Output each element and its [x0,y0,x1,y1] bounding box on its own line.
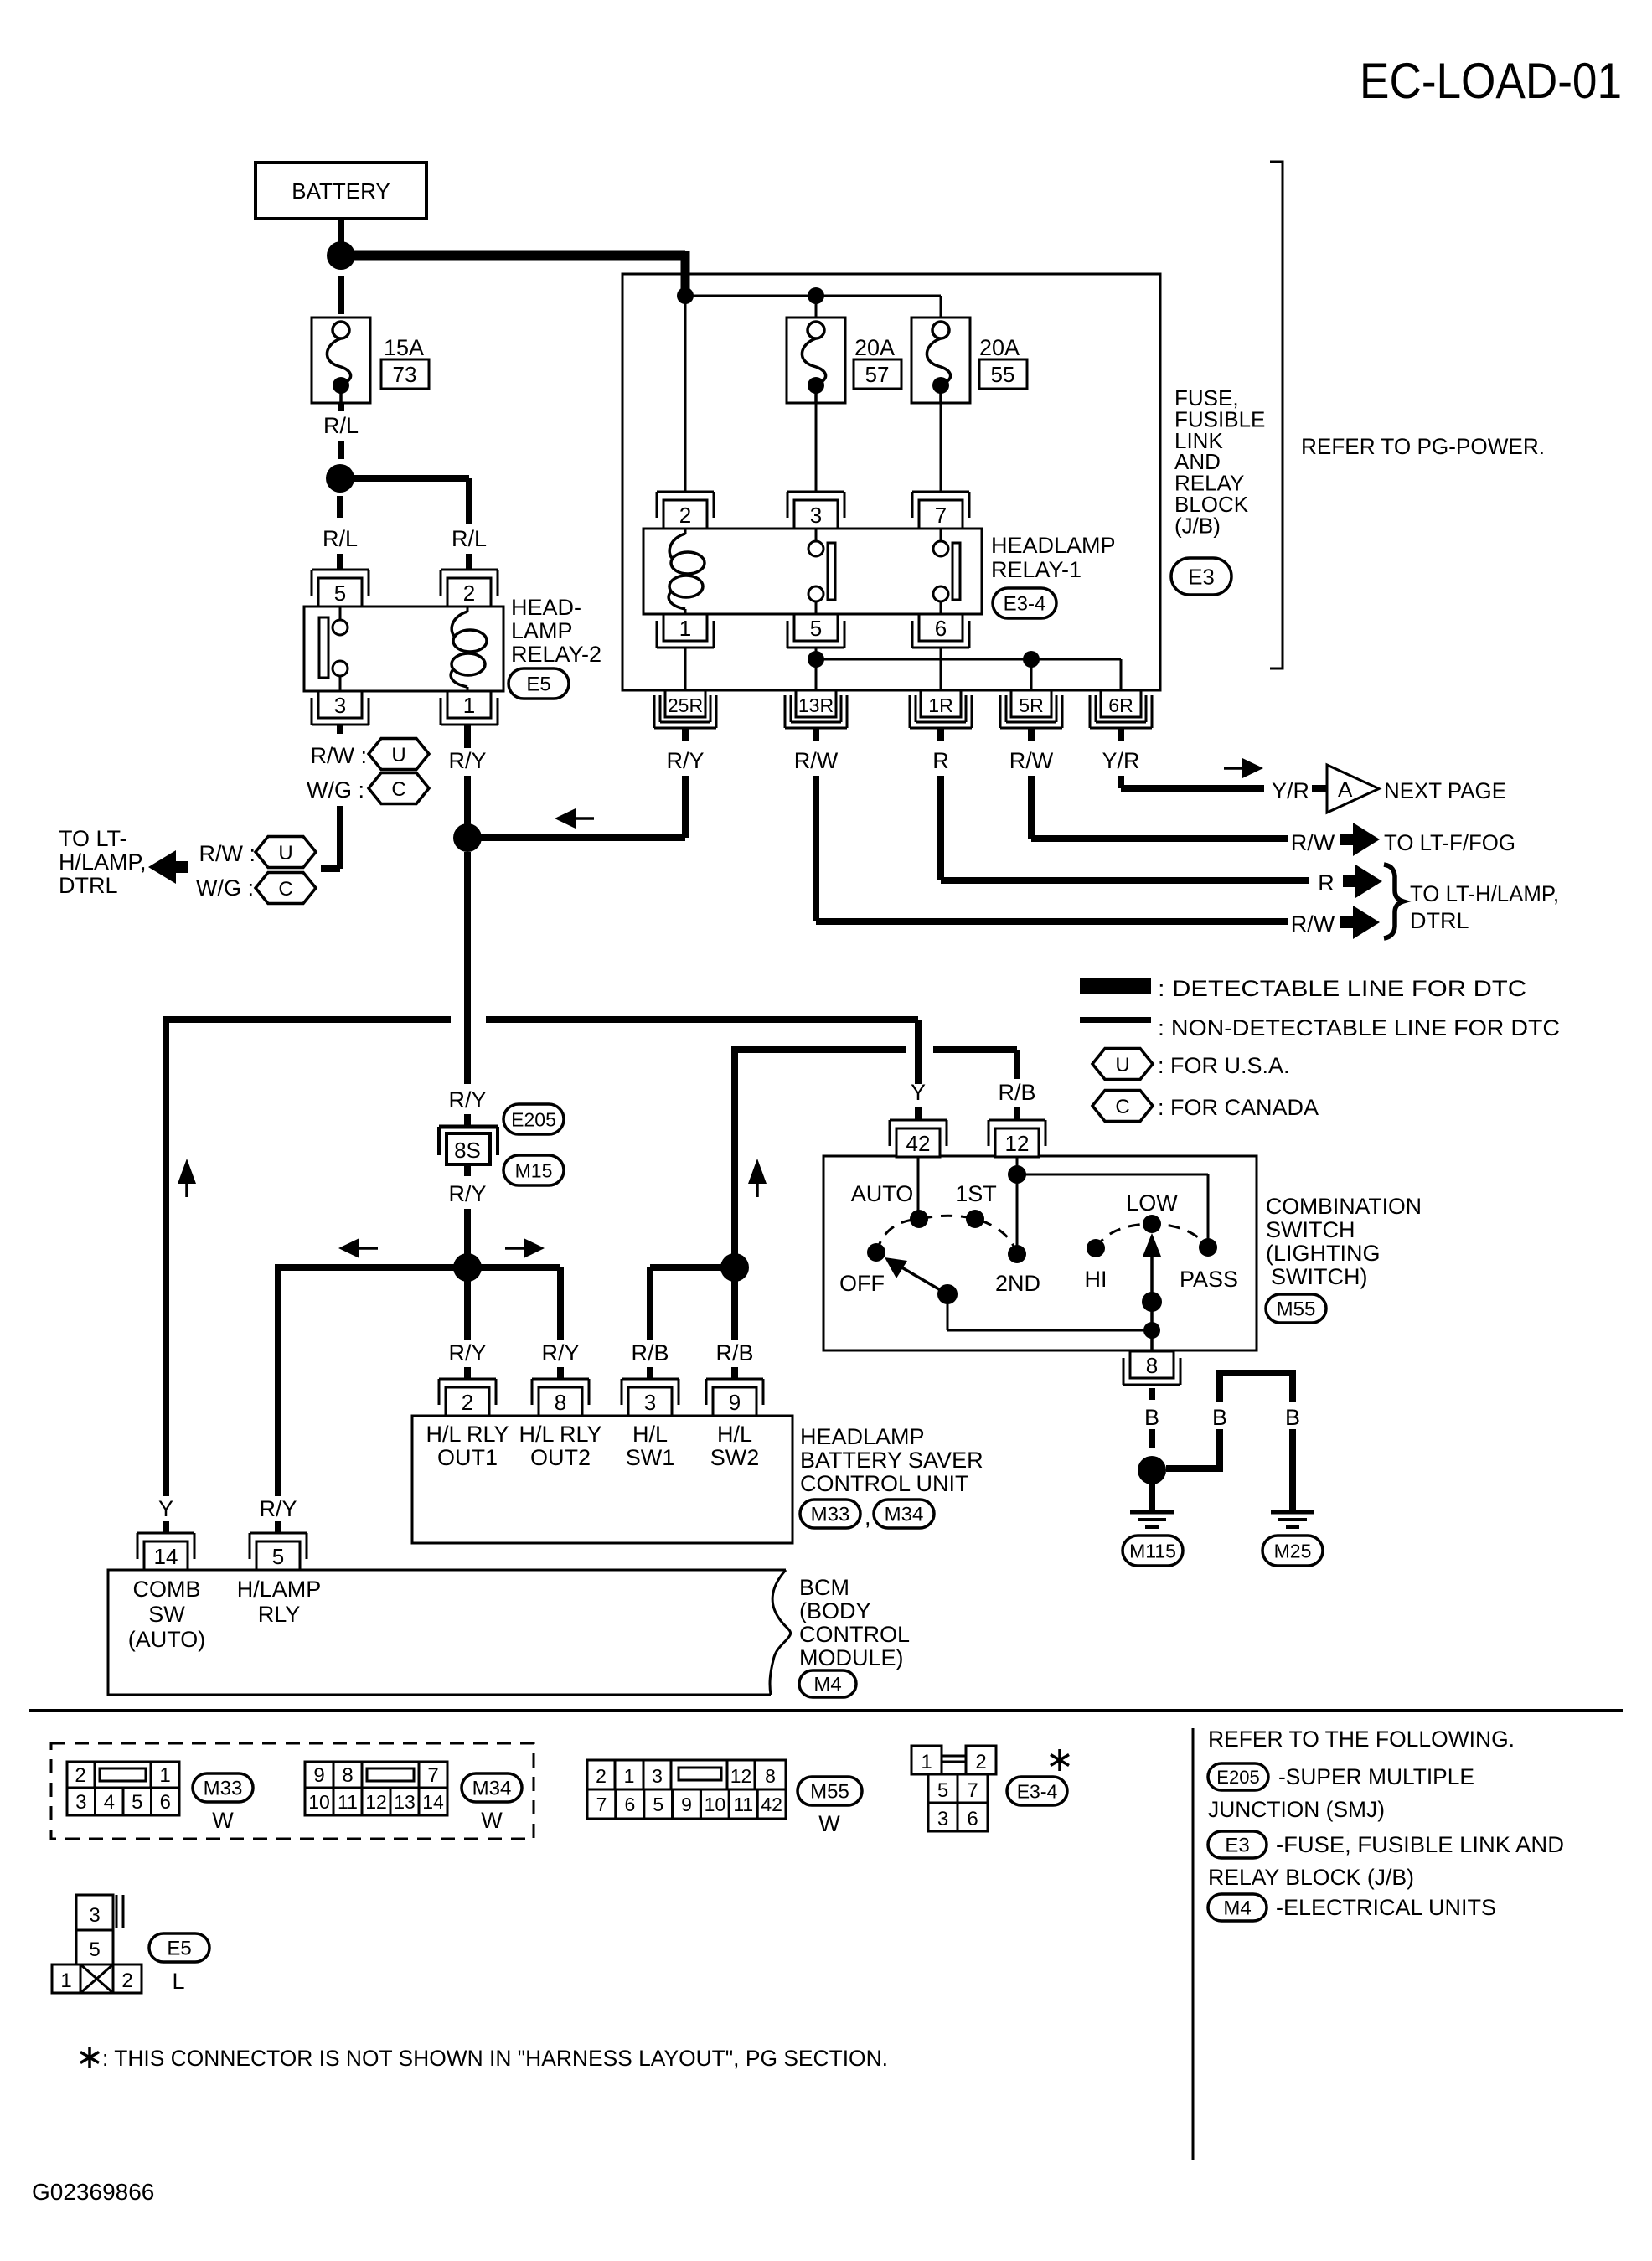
wire stub pin 776 [647,1367,653,1379]
svg-text:R/Y: R/Y [448,1087,486,1112]
svg-text:9: 9 [313,1764,324,1787]
svg-text:M55: M55 [810,1781,849,1804]
node battery junction [327,241,355,270]
ref E205 SMJ [1208,1763,1268,1790]
svg-text:8: 8 [555,1390,566,1415]
svg-text:R/Y: R/Y [666,748,704,773]
svg-text:2: 2 [596,1765,607,1787]
svg-text:M33: M33 [204,1778,243,1800]
svg-text:3: 3 [810,503,822,528]
wire pin42 to AUTO [917,1157,920,1219]
node R/B distribution junction [720,1253,749,1282]
wire to ground M115 [1149,1481,1155,1510]
wire Y/R to next page [1118,776,1124,788]
arrow annotation up left [178,1159,196,1184]
svg-text:55: 55 [991,362,1015,387]
svg-text:R: R [1318,870,1335,896]
svg-text:REFER TO THE FOLLOWING.: REFER TO THE FOLLOWING. [1208,1727,1515,1752]
svg-text:R/Y: R/Y [541,1340,579,1365]
svg-text:: FOR CANADA: : FOR CANADA [1158,1095,1319,1120]
battery saver pin 2 [439,1378,496,1381]
svg-text:3: 3 [644,1390,656,1415]
wire stub below pin 3 [337,725,343,734]
svg-text:OUT2: OUT2 [530,1445,591,1470]
contact LOW [1143,1215,1161,1233]
wire stub pin 669 [557,1367,564,1379]
wire bus R/B [735,1046,906,1053]
svg-text:AUTO: AUTO [851,1181,914,1206]
wire pin1 to 25R [684,648,687,690]
wire R/Y to junction [464,776,471,838]
svg-text:CONTROL: CONTROL [799,1622,910,1647]
connector face E3-4 [911,1746,942,1774]
wire internal bus [685,295,941,297]
next page connector A [1312,785,1327,792]
node R/Y distribution junction [453,1253,482,1282]
wiper arm left with arrowhead [895,1263,947,1294]
arrow annotation right [524,1238,545,1258]
wire pin12 to 2ND [1016,1157,1019,1254]
wire branch to 5R 6R [816,658,1121,661]
connector ref E205 [503,1104,564,1134]
svg-text:10: 10 [308,1791,330,1813]
contact AUTO [910,1210,928,1228]
BCM pin 14 [137,1532,194,1535]
relay-2 pin 3 [318,691,362,718]
wire junction to OUT2 pin 8 [467,1264,560,1271]
svg-text:5: 5 [937,1779,948,1802]
svg-text:2: 2 [463,581,475,606]
contact mid dot [1142,1292,1162,1312]
wiper pivot dot [937,1284,958,1304]
relay-2 contact bar [319,617,328,678]
contact 2ND [1008,1245,1026,1263]
svg-text:Y/R: Y/R [1102,748,1139,773]
svg-text:R/B: R/B [715,1340,753,1365]
svg-text:HEADLAMP: HEADLAMP [800,1424,925,1449]
svg-text:E3: E3 [1188,564,1215,589]
arrow annotation right [1242,758,1263,778]
svg-text:M34: M34 [885,1504,924,1526]
wire junction to SW1 pin 3 [650,1264,735,1271]
svg-text:BCM: BCM [799,1575,849,1600]
svg-text:C: C [1115,1096,1129,1118]
svg-text:DTRL: DTRL [59,873,118,898]
connector face M55 [587,1760,615,1789]
fuse 20A 55 [911,317,970,403]
svg-text:3: 3 [334,693,346,718]
svg-text:12: 12 [1005,1131,1030,1156]
svg-text:: THIS CONNECTOR IS NOT SHOWN: : THIS CONNECTOR IS NOT SHOWN IN "HARNES… [102,2046,888,2071]
svg-text:6: 6 [935,616,947,641]
svg-text:REFER TO PG-POWER.: REFER TO PG-POWER. [1301,434,1545,459]
svg-text:-SUPER MULTIPLE: -SUPER MULTIPLE [1278,1764,1474,1789]
svg-text:8: 8 [342,1764,353,1787]
svg-text:: DETECTABLE LINE FOR DTC: : DETECTABLE LINE FOR DTC [1158,976,1526,1001]
wire R/W to LT-H/LAMP [813,776,819,921]
J/B exit pin 6R [1101,690,1141,717]
node J/B bus junction A [677,287,694,304]
wire 25R to junction [682,776,689,838]
svg-text:(BODY: (BODY [799,1598,871,1623]
svg-text:9: 9 [681,1794,692,1815]
svg-text:E5: E5 [526,674,550,696]
svg-text:1R: 1R [928,694,952,716]
svg-text:11: 11 [733,1794,753,1815]
wire R/W to LT-F/FOG [1028,776,1035,839]
wire stub below 1338 [1118,728,1124,741]
svg-text:8: 8 [765,1765,776,1787]
svg-text:5: 5 [272,1544,284,1569]
svg-text:-FUSE, FUSIBLE LINK AND: -FUSE, FUSIBLE LINK AND [1276,1832,1564,1857]
svg-text:5: 5 [89,1938,100,1961]
svg-text:RLY: RLY [258,1602,301,1627]
svg-text:6: 6 [624,1794,635,1815]
svg-text:Y: Y [158,1496,173,1521]
connector ref E3-4 bottom [1007,1777,1067,1805]
wire pin3 down-left [337,806,343,869]
svg-text:JUNCTION (SMJ): JUNCTION (SMJ) [1208,1797,1385,1822]
svg-text:BATTERY SAVER: BATTERY SAVER [800,1448,983,1473]
svg-text:COMB: COMB [133,1577,201,1602]
svg-text:Y: Y [911,1080,926,1105]
svg-text:H/L RLY: H/L RLY [519,1422,601,1447]
fuse block J/B box [622,274,1160,690]
svg-text:14: 14 [422,1791,444,1813]
svg-text:3: 3 [937,1808,948,1830]
connector ref E5 bottom [149,1933,209,1962]
svg-text:B: B [1144,1405,1159,1430]
svg-text:H/L RLY: H/L RLY [426,1422,509,1447]
BCM pin 5 [250,1532,307,1535]
svg-text:DTRL: DTRL [1410,908,1469,933]
right wiper arm with arrowhead up [1150,1248,1154,1350]
relay-2 contact circles [339,607,342,621]
svg-text:10: 10 [705,1794,726,1815]
svg-text:20A: 20A [979,335,1020,360]
svg-text:LAMP: LAMP [511,618,573,643]
battery saver pin 8 [532,1378,589,1381]
svg-text:2: 2 [121,1969,132,1992]
svg-text:R: R [932,748,949,773]
contact OFF [867,1243,885,1262]
connector ref M55 [798,1777,862,1805]
fuse 15A [312,317,370,403]
svg-text:H/LAMP: H/LAMP [237,1577,322,1602]
comb switch pin 42 [915,1079,922,1084]
svg-text:2ND: 2ND [995,1271,1040,1296]
wire stub below 8S [464,1164,471,1176]
svg-text:1: 1 [60,1969,71,1992]
svg-text:R/L: R/L [323,526,358,551]
svg-text:42: 42 [761,1794,782,1815]
relay-1 pin 2 [657,491,714,493]
svg-text:11: 11 [338,1791,358,1813]
svg-text:SW1: SW1 [626,1445,675,1470]
wire stub pin 14 [163,1521,169,1533]
svg-text:B: B [1212,1405,1227,1430]
node R/L junction [326,464,354,493]
svg-text:(J/B): (J/B) [1174,513,1221,538]
svg-text:12: 12 [730,1765,752,1787]
node branch junction 5R [1023,651,1040,668]
wire to junction [464,1209,471,1267]
wire stub pin2 [466,554,472,570]
wire R/Y through bus [464,852,471,1084]
ref M4 electrical units [1208,1894,1267,1921]
svg-text:M33: M33 [811,1504,850,1526]
relay U1 headlamp relay-2 body [304,607,503,691]
svg-text:SWITCH: SWITCH [1266,1217,1355,1242]
battery box [256,163,426,219]
wire stub pin 877 [731,1367,738,1379]
ground M25 [1271,1510,1314,1515]
svg-text:57: 57 [865,362,890,387]
ref E3 fuse block [1208,1831,1267,1858]
svg-text:8S: 8S [454,1138,481,1163]
connector face M34 [305,1762,333,1788]
relay-1 contact B [940,529,942,541]
svg-text:MODULE): MODULE) [799,1645,904,1670]
svg-text:R/B: R/B [631,1340,669,1365]
wire battery bus to J/B [341,251,685,261]
wire dash battery to fuse [338,276,344,314]
fuse number box 73 [381,359,429,389]
svg-text:20A: 20A [854,335,895,360]
svg-text:9: 9 [729,1390,741,1415]
svg-text:13: 13 [394,1791,416,1813]
svg-text:E5: E5 [167,1938,191,1960]
connector ref M34 [462,1773,522,1802]
relay-2 pin 1 [447,691,491,718]
relay-1 pin 7 [912,491,969,493]
dashed box around M33 M34 [51,1743,534,1839]
svg-text:73: 73 [393,362,417,387]
wire stub below 1123 [937,728,944,741]
battery saver pin 3 [622,1378,679,1381]
dashed arc right rotary [1096,1224,1208,1248]
svg-text:L: L [172,1969,184,1994]
svg-text:E205: E205 [1216,1767,1259,1788]
SMJ connector 8S [439,1125,498,1129]
svg-text:E3: E3 [1225,1835,1249,1857]
svg-text:: NON-DETECTABLE LINE FOR DTC: : NON-DETECTABLE LINE FOR DTC [1158,1015,1560,1040]
wire stub to 8S [464,1114,471,1128]
wire stub below 818 [682,728,689,741]
svg-text:E205: E205 [511,1108,556,1130]
dashed arc left rotary [876,1216,1017,1254]
svg-text:R/W: R/W [794,748,839,773]
headlamp battery saver control unit box [412,1416,792,1543]
svg-text:W: W [481,1808,503,1833]
wire to PASS [1017,1174,1208,1176]
svg-text:12: 12 [365,1791,387,1813]
svg-text:R/B: R/B [998,1080,1035,1105]
relay-1 pin 1 [663,614,707,641]
svg-text:PASS: PASS [1180,1267,1238,1292]
svg-text:R/W: R/W [1291,830,1335,855]
bracket refer to PG-POWER [1270,162,1283,668]
svg-text:COMBINATION: COMBINATION [1266,1194,1422,1219]
relay-1 pin 6 [919,614,963,641]
svg-text:R/Y: R/Y [448,1340,486,1365]
battery saver pin 9 [706,1378,763,1381]
node common junction [1143,1322,1160,1339]
svg-text:R/W: R/W [1009,748,1054,773]
svg-text:1: 1 [679,616,691,641]
legend detectable line [1080,978,1151,994]
J/B exit pin 25R [665,690,705,717]
svg-text:C: C [278,878,292,901]
svg-text:SW: SW [148,1602,185,1627]
wire stub pin 558 [464,1367,471,1379]
svg-text:C: C [391,778,405,801]
svg-text:NEXT PAGE: NEXT PAGE [1384,778,1506,803]
svg-text:5: 5 [810,616,822,641]
wire R to LT-H/LAMP [937,776,944,880]
svg-text:W: W [212,1808,234,1833]
connector ref M55 [1266,1294,1326,1323]
relay-1 pin 3 [787,491,844,493]
connector face M33 [67,1762,95,1788]
arrow annotation left [555,808,576,829]
relay-1 coil [684,529,687,534]
svg-text:42: 42 [906,1131,931,1156]
wire junction to BCM pin 5 [278,1264,467,1271]
svg-text:TO LT-F/FOG: TO LT-F/FOG [1384,830,1515,855]
svg-text:R/Y: R/Y [448,1181,486,1206]
svg-text:(LIGHTING: (LIGHTING [1266,1241,1381,1266]
wire stub pin5 [337,554,343,570]
svg-text:RELAY-2: RELAY-2 [511,642,601,667]
contact HI [1087,1239,1105,1257]
svg-text:7: 7 [935,503,947,528]
svg-text:7: 7 [967,1779,978,1802]
svg-text:M55: M55 [1277,1298,1316,1321]
svg-text:15A: 15A [384,335,424,360]
wire stub pin 5 [275,1521,281,1533]
svg-text:H/L: H/L [717,1422,752,1447]
svg-text:RELAY BLOCK (J/B): RELAY BLOCK (J/B) [1208,1865,1414,1890]
comb switch pin 8 [1130,1351,1174,1378]
svg-text:R/W :: R/W : [311,743,368,768]
relay-2 pin 5 [312,569,369,571]
svg-text:1: 1 [463,693,475,718]
svg-text:BATTERY: BATTERY [292,178,390,204]
legend C for Canada [1092,1091,1153,1122]
svg-text:3: 3 [652,1765,663,1787]
svg-text:B: B [1285,1405,1300,1430]
svg-text:LOW: LOW [1126,1190,1178,1216]
svg-text:13R: 13R [798,694,834,716]
svg-text:: FOR U.S.A.: : FOR U.S.A. [1158,1053,1290,1078]
svg-text:A: A [1338,777,1353,802]
wire dash to relay-2 pin 5 [337,496,343,518]
svg-text:14: 14 [154,1544,178,1569]
svg-text:8: 8 [1146,1353,1158,1378]
svg-text:W/G :: W/G : [196,875,254,901]
connector refs M33 M34 [800,1500,860,1528]
wire junction to OUT1 pin 2 [464,1267,471,1340]
svg-text:7: 7 [596,1794,607,1815]
arrow annotation up right [748,1159,767,1184]
svg-text:M4: M4 [813,1674,841,1696]
svg-text:6R: 6R [1108,694,1133,716]
svg-text:OUT1: OUT1 [437,1445,498,1470]
svg-text:5: 5 [334,581,346,606]
svg-text:RELAY-1: RELAY-1 [991,557,1082,582]
svg-text:4: 4 [104,1791,115,1814]
node R/Y junction [453,823,482,852]
legend U for USA [1092,1049,1153,1080]
connector ref E3 [1171,558,1231,595]
footnote asterisk [80,2047,99,2068]
wiper to common [947,1294,949,1330]
svg-text:R/Y: R/Y [448,748,486,773]
relay-1 contact A [815,529,818,541]
wire dash [338,441,344,459]
ground bridge wires B-B [1220,1370,1293,1376]
svg-text:M25: M25 [1274,1540,1312,1562]
svg-text:EC-LOAD-01: EC-LOAD-01 [1360,53,1622,109]
svg-text:1: 1 [159,1764,170,1787]
relay U2 headlamp relay-1 body [643,529,982,614]
svg-text:5R: 5R [1019,694,1043,716]
wire stub relay-2 pin1 [464,725,471,748]
separator line [29,1709,1623,1712]
svg-text:OFF: OFF [839,1271,885,1296]
svg-text:M115: M115 [1129,1540,1176,1562]
svg-text:R/Y: R/Y [259,1496,297,1521]
divider line [1192,1728,1195,2160]
wire fuse1 to pin 3 [815,403,818,493]
connector ref E5 [509,668,569,699]
svg-text:1: 1 [921,1751,932,1773]
svg-text:U: U [278,842,292,865]
svg-text:2: 2 [462,1390,473,1415]
svg-text:25R: 25R [668,694,703,716]
svg-text:2: 2 [975,1751,986,1773]
svg-text:Y/R: Y/R [1272,778,1309,803]
svg-text:H/LAMP,: H/LAMP, [59,849,147,875]
svg-text:3: 3 [89,1904,100,1927]
connector ref M4 [799,1670,856,1697]
svg-text:R/L: R/L [323,413,359,438]
svg-text:TO LT-: TO LT- [59,826,127,851]
J/B exit pin 1R [921,690,961,717]
wire stub below 1231 [1028,728,1035,741]
svg-text:SWITCH): SWITCH) [1271,1264,1367,1289]
arrow to LT-H/LAMP DTRL [148,850,176,884]
J/B exit pin 5R [1011,690,1051,717]
wire fuse2 to pin 7 [940,403,942,493]
svg-text:U: U [391,744,405,767]
fuse 20A 57 [787,317,845,403]
svg-text:2: 2 [679,503,691,528]
wire junction to SW2 pin 9 [731,1267,738,1340]
relay-2 coil [467,607,469,612]
svg-text:6: 6 [967,1808,978,1830]
svg-text:2: 2 [75,1764,85,1787]
svg-text:W/G :: W/G : [307,777,364,803]
svg-text:5: 5 [132,1791,142,1814]
svg-text:E3-4: E3-4 [1004,593,1046,616]
svg-text:HI: HI [1085,1267,1107,1292]
combination switch box [823,1156,1257,1350]
arrow annotation left [338,1238,359,1258]
wire dash pin8 to ground [1149,1388,1155,1400]
wire stub below 974 [813,728,819,741]
